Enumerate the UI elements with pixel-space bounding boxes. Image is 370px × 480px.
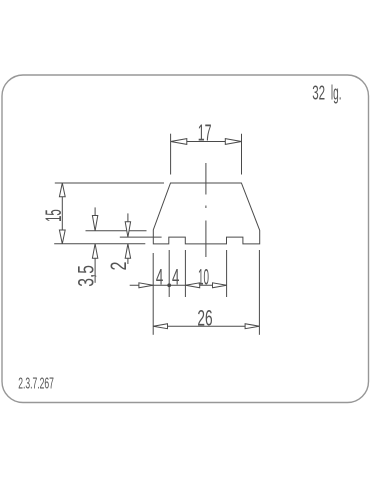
- dim15 top extension line: [55, 182, 164, 184]
- dim2 upper arrowhead (pointing down): [125, 222, 130, 237]
- chain extension line 1 (left edge): [152, 253, 154, 335]
- svg-text:17: 17: [198, 120, 212, 146]
- dim3,5 upper leader line: [94, 207, 96, 230]
- dimension chain 4 / 4 / 10 (bottom features): [130, 250, 227, 335]
- svg-text:15: 15: [41, 209, 66, 222]
- svg-text:lg.: lg.: [331, 82, 342, 104]
- dim17 dimension line: [171, 141, 242, 143]
- dimension 3,5 (side step height): [86, 207, 147, 282]
- svg-text:2.3.7.267: 2.3.7.267: [18, 376, 54, 393]
- dim26 right extension line: [258, 250, 260, 335]
- dimension 2 (notch depth): [120, 213, 162, 264]
- dimension 17 (top width): [171, 134, 242, 175]
- dim15 bottom extension line: [54, 243, 145, 245]
- dim15 lower arrowhead: [59, 230, 65, 244]
- dimension 15 (overall height): [54, 183, 164, 244]
- dim17 left arrowhead: [171, 139, 187, 145]
- dim17 right extension line: [241, 134, 243, 175]
- chain extension line 3 (notch right): [184, 250, 186, 297]
- chain extension line 2 (notch left): [168, 250, 170, 297]
- part number label "2.3.7.267": [18, 376, 54, 393]
- dim3,5 lower leader line: [94, 244, 96, 283]
- svg-text:26: 26: [197, 305, 212, 330]
- svg-text:10: 10: [198, 265, 209, 290]
- chain junction dot between the two 4 dims: [167, 283, 171, 287]
- dim15 upper arrowhead: [59, 183, 65, 197]
- svg-text:32: 32: [312, 82, 325, 104]
- dim26 left arrowhead: [153, 324, 167, 329]
- chain outside arrowhead (pointing right at left edge): [139, 283, 153, 288]
- dim3,5 extension line at step level: [86, 230, 147, 232]
- dim17 left extension line: [170, 134, 172, 175]
- dim10 left arrowhead: [186, 283, 200, 288]
- note label "32 lg.": [312, 82, 341, 104]
- svg-text:2: 2: [106, 262, 131, 271]
- dim26 dimension line: [153, 325, 259, 327]
- chain dimension line: [130, 284, 227, 286]
- dim3,5 upper arrowhead (pointing down): [92, 216, 97, 231]
- dim17 right arrowhead: [225, 139, 241, 145]
- dim2 lower arrowhead (pointing up): [125, 244, 130, 258]
- dim10 right arrowhead: [213, 283, 227, 288]
- dim15 dimension line: [61, 183, 63, 244]
- part profile outline (trapezoid with two bottom notches): [153, 183, 259, 244]
- dimension 26 (bottom width): [153, 250, 259, 335]
- dim26 right arrowhead: [245, 324, 259, 329]
- dim2 extension line at notch top level: [120, 236, 162, 238]
- dim2 upper leader line: [127, 213, 129, 237]
- svg-text:3,5: 3,5: [74, 265, 99, 287]
- vertical centerline (dash-dot): [205, 163, 207, 257]
- svg-text:4: 4: [156, 265, 163, 290]
- drawing sheet border frame: [2, 75, 369, 403]
- chain extension line 4 (second notch left): [226, 250, 228, 297]
- dim3,5 lower arrowhead (pointing up): [92, 244, 97, 258]
- dim2 lower leader line: [127, 244, 129, 264]
- svg-text:4: 4: [172, 265, 179, 290]
